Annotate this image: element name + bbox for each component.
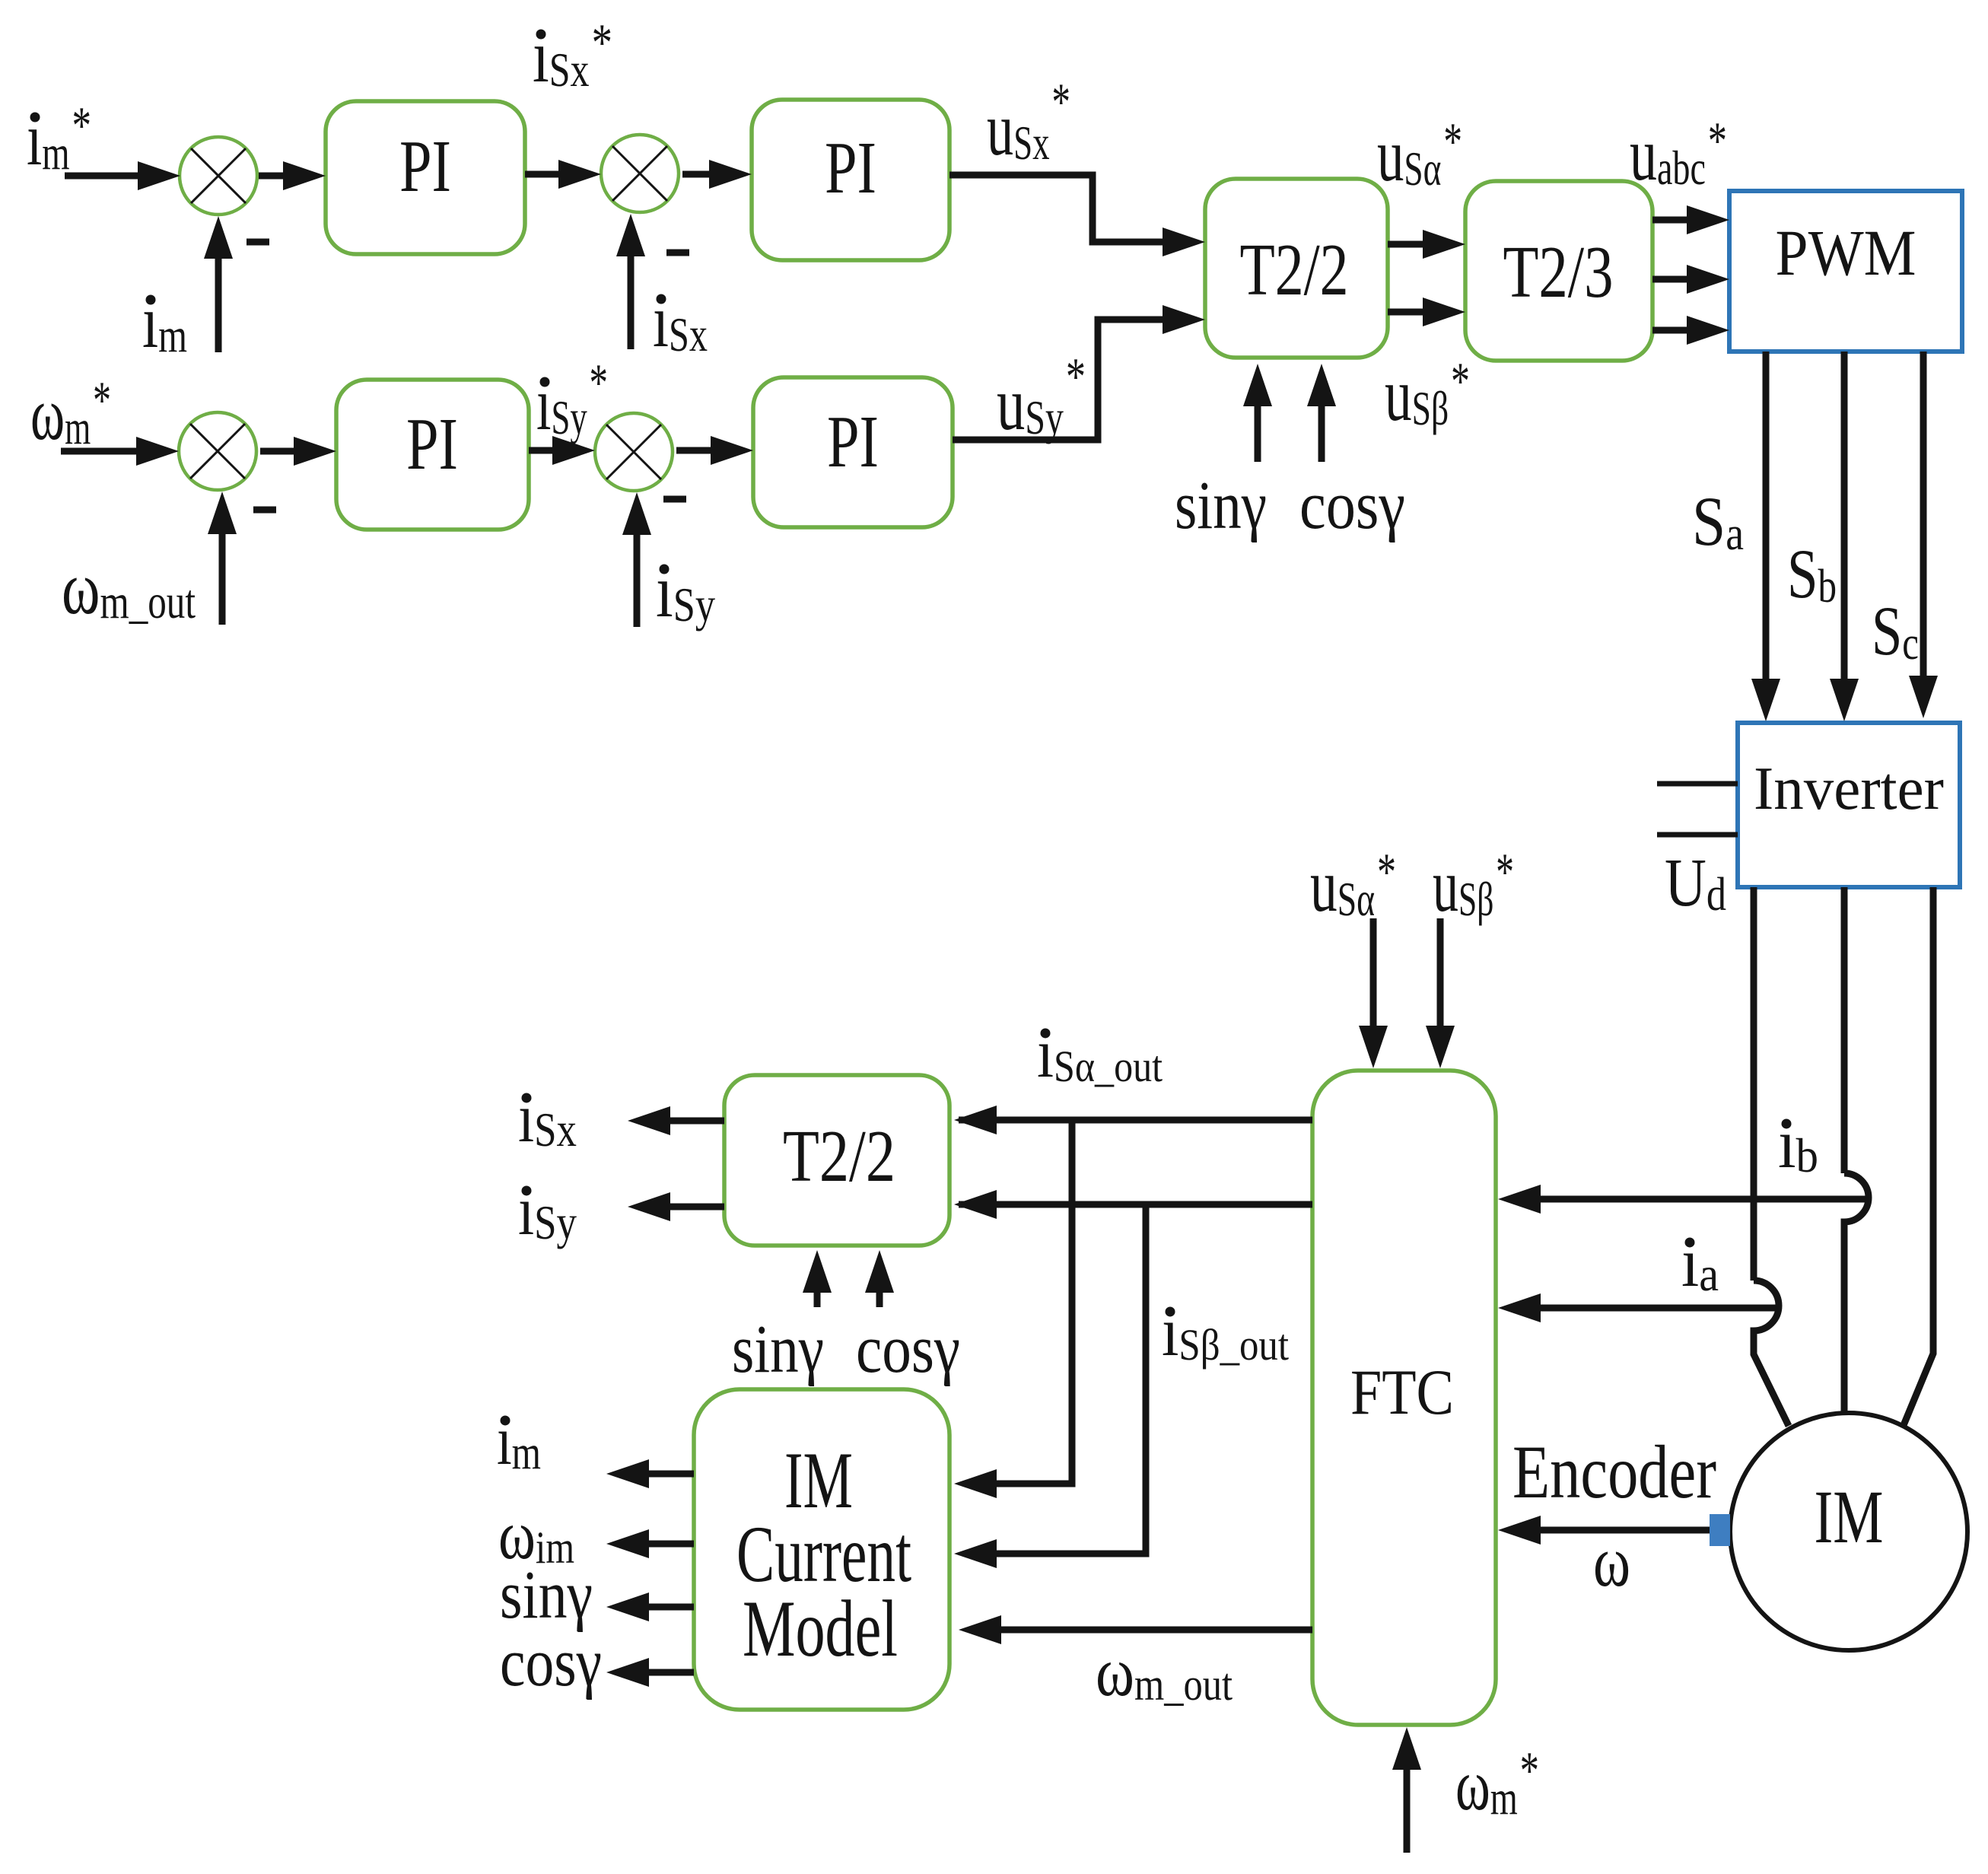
wire ia measurement to FTC (1524, 1305, 1777, 1312)
wire iSx out of T2/2 (654, 1118, 724, 1125)
wire T2/3 to PWM 3 (1652, 327, 1703, 334)
wire iSy feedback up into S4 (634, 518, 641, 627)
summing junction S2 (601, 135, 679, 212)
wire wim out of model (632, 1541, 694, 1548)
svg-text:Inverter: Inverter (1754, 756, 1944, 822)
wire uSb* down into FTC (1437, 918, 1444, 1042)
summing junction S3 (179, 412, 256, 490)
svg-text:PI: PI (399, 126, 451, 208)
summing junction S1 (180, 137, 257, 215)
wire inverter phase a with current sensor loop (1751, 887, 1757, 1281)
svg-text:PI: PI (406, 403, 458, 485)
wire T2/3 to PWM 2 (1652, 276, 1703, 283)
svg-text:T2/2: T2/2 (783, 1115, 895, 1197)
wire encoder to FTC (1524, 1527, 1710, 1534)
op block PI1 (flux PI controller) (326, 101, 525, 254)
svg-text:sinγ: sinγ (732, 1312, 824, 1387)
block PWM (1729, 191, 1962, 352)
wire PI3 to S4 (529, 447, 569, 454)
block T2/3 transform (1465, 181, 1652, 361)
block Inverter (1738, 723, 1960, 887)
block T2/2 forward transform (1205, 179, 1388, 358)
arrow branch into IM current model (954, 1469, 997, 1498)
arrow iSa_out into T2/2 (954, 1106, 997, 1134)
wire wm* up into FTC (1404, 1753, 1411, 1853)
wire im* input to S1 (65, 173, 154, 180)
wire inverter phase b with current sensor loop (1841, 887, 1848, 1173)
wire S2 to PI2 (682, 171, 726, 178)
wire im out of model (632, 1471, 694, 1478)
svg-text:ω: ω (1593, 1521, 1630, 1602)
wire iSb_out FTC to T2/2 with branch (989, 1204, 1312, 1554)
wire wm_out feedback up into S3 (219, 517, 226, 625)
wire uSa* down into FTC (1370, 918, 1377, 1042)
wire S3 to PI3 (260, 448, 310, 455)
minus sign at S3 (253, 507, 276, 514)
wire Sb PWM to inverter (1841, 352, 1848, 695)
svg-text:PI: PI (825, 127, 876, 209)
wire cosg out of model (632, 1669, 694, 1676)
arrow branch2 into IM current model (954, 1539, 997, 1568)
wire S1 to PI1 (259, 173, 300, 180)
wire sin up into T2/2 feedback (814, 1276, 821, 1307)
induction motor IM circle (1730, 1413, 1967, 1650)
svg-text:cosγ: cosγ (1299, 468, 1405, 543)
wire wm_out FTC to IM current model (984, 1627, 1312, 1634)
svg-text:PI: PI (827, 401, 879, 483)
wire sing out of model (632, 1604, 694, 1611)
wire inverter phase c to IM (1902, 887, 1933, 1429)
svg-text:cosγ: cosγ (856, 1312, 960, 1387)
block T2/2 feedback transform (724, 1075, 949, 1246)
wire T2/2 to T2/3 upper (uSa*) (1388, 241, 1439, 248)
minus sign at S4 (663, 496, 686, 503)
wire PI1 to S2 (525, 171, 575, 178)
arrow iSb_out into T2/2 (954, 1190, 997, 1219)
wire T2/2 to T2/3 lower (uSb*) (1388, 309, 1439, 316)
wire wm* input to S3 (61, 448, 153, 455)
svg-text:PWM: PWM (1776, 216, 1916, 289)
wire ib measurement to FTC (1524, 1196, 1866, 1203)
wire PI2 output uSx* route to T2/2 (949, 175, 1172, 242)
wire Sc PWM to inverter (1920, 352, 1927, 692)
wire iSa_out FTC to T2/2 with branch (989, 1120, 1312, 1484)
wire iSy out of T2/2 (654, 1204, 724, 1211)
wire T2/3 to PWM 1 (1652, 217, 1703, 224)
svg-text:IM: IM (1815, 1475, 1884, 1559)
block FTC (1312, 1071, 1496, 1725)
svg-text:T2/2: T2/2 (1240, 229, 1349, 310)
svg-text:Model: Model (743, 1584, 898, 1673)
svg-text:cosγ: cosγ (500, 1625, 602, 1701)
arrow into T2/2 lower input (1141, 317, 1179, 323)
wire im feedback up into S1 (215, 242, 222, 352)
svg-text:sinγ: sinγ (1175, 468, 1267, 543)
svg-text:sinγ: sinγ (500, 1557, 593, 1633)
wire cos input up into T2/2 (1318, 390, 1325, 462)
wire PI4 output uSy* route to T2/2 (953, 320, 1172, 440)
wire iSx feedback up into S2 (628, 240, 635, 349)
op block PI4 (iSy current PI controller) (753, 377, 953, 527)
wire DC link upper bar (1657, 781, 1738, 787)
summing junction S4 (595, 413, 673, 491)
wire DC link lower bar (1657, 832, 1738, 838)
svg-text:T2/3: T2/3 (1503, 231, 1614, 313)
wire S4 to PI4 (676, 447, 727, 454)
minus sign at S2 (666, 250, 689, 256)
block IM Current Model (694, 1389, 949, 1710)
op block PI3 (speed PI controller) (336, 380, 529, 530)
svg-text:Encoder: Encoder (1512, 1430, 1716, 1514)
wire Sa PWM to inverter (1763, 352, 1770, 695)
wire cos up into T2/2 feedback (876, 1276, 883, 1307)
op block PI2 (iSx current PI controller) (752, 100, 949, 260)
svg-text:FTC: FTC (1350, 1357, 1454, 1428)
arrow into T2/2 upper input (1141, 239, 1179, 246)
wire sin input up into T2/2 (1255, 390, 1261, 462)
minus sign at S1 (247, 239, 269, 246)
encoder sensor square (1710, 1514, 1730, 1546)
